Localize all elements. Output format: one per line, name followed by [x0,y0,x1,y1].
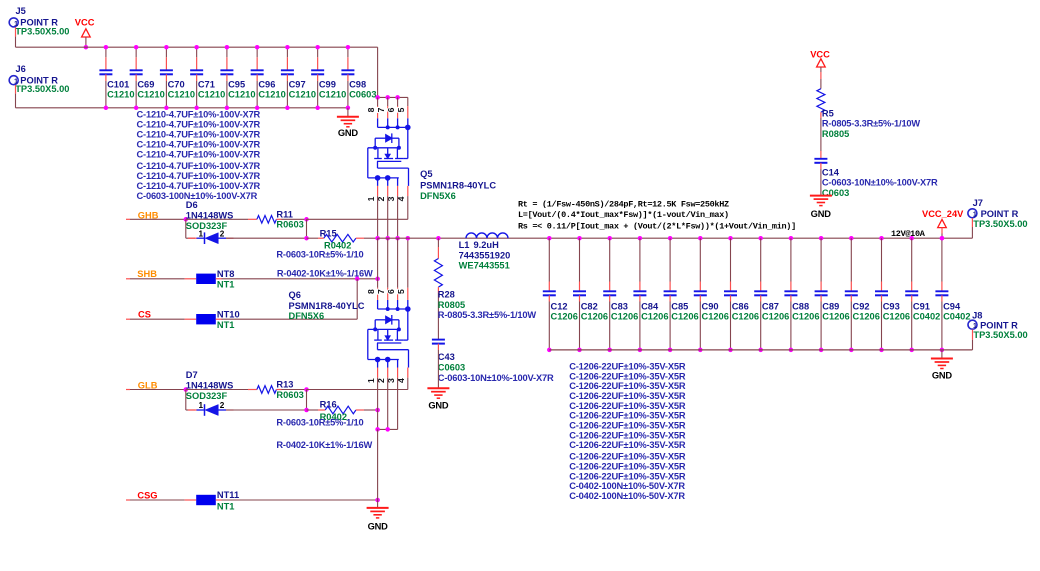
svg-text:9.2uH: 9.2uH [474,240,500,250]
Q6 top pin wire from switch node [397,238,399,288]
wire VCC_24V to bus [941,234,943,239]
capacitor C87 [758,236,763,241]
wire CS to riser [222,318,358,320]
D6 pin1 stub [188,237,197,239]
power symbol VCC (R5) triangle [817,59,826,67]
svg-text:TP3.50X5.00: TP3.50X5.00 [15,84,69,94]
net-tie NT8 [196,274,216,284]
svg-text:C1210: C1210 [198,89,225,99]
svg-text:R-0603-10R±5%-1/10: R-0603-10R±5%-1/10 [276,418,363,428]
wire D7 cathode to R16 [226,409,307,411]
Q5 source pin wire to switch node [397,196,399,238]
svg-text:C1206: C1206 [792,312,819,322]
capacitor C89 [819,236,824,241]
svg-text:C1206: C1206 [641,312,668,322]
svg-text:WE7443551: WE7443551 [459,261,510,271]
svg-text:R28: R28 [438,289,455,299]
Q6 pin2 wire down [387,378,389,430]
Q6 pin1 wire to tie bar [377,410,379,429]
capacitor C98 [347,47,349,57]
junction CSG/GND [375,498,380,503]
svg-text:C-1206-22UF±10%-35V-X5R: C-1206-22UF±10%-35V-X5R [569,452,686,462]
svg-text:C-1210-4.7UF±10%-100V-X7R: C-1210-4.7UF±10%-100V-X7R [137,140,261,150]
svg-text:NT8: NT8 [217,269,235,279]
ground GND1 (input bank) [337,116,359,118]
wire switch node / output bus [378,237,973,239]
svg-text:CSG: CSG [137,491,157,501]
junction VCC/bus [84,45,89,50]
svg-text:12V@10A: 12V@10A [891,229,926,239]
D6 pin1 blue lead [197,237,205,239]
ground GND5 (output bank) [931,358,953,360]
GHB wire start tick [126,218,130,220]
svg-text:C1206: C1206 [853,312,880,322]
svg-text:L1: L1 [459,240,470,250]
wire VCC bus down to Q5 [377,47,379,97]
svg-text:R0603: R0603 [276,390,303,400]
svg-text:SHB: SHB [137,269,157,279]
wire J6 to GND bus [15,94,17,108]
capacitor C70 [165,47,167,57]
svg-text:C-0402-100N±10%-50V-X7R: C-0402-100N±10%-50V-X7R [569,491,685,501]
svg-text:C-1206-22UF±10%-35V-X5R: C-1206-22UF±10%-35V-X5R [569,391,686,401]
Q6 top pin wire from switch node [377,238,379,288]
wire NT8 to Q6 pin8 [222,278,378,280]
wire R16 to pin1 column [364,409,378,411]
diode D7 symbol [204,404,206,416]
svg-text:C1206: C1206 [762,312,789,322]
capacitor C86 [728,236,733,241]
resistor R15 [324,234,356,242]
svg-text:C-1206-22UF±10%-35V-X5R: C-1206-22UF±10%-35V-X5R [569,430,686,440]
svg-text:SOD323F: SOD323F [186,391,228,401]
svg-text:NT1: NT1 [217,279,235,289]
svg-text:C-1210-4.7UF±10%-100V-X7R: C-1210-4.7UF±10%-100V-X7R [137,181,261,191]
wire GND bus [16,107,348,109]
svg-text:Rs =< 0.11/P[Iout_max + (Vout/: Rs =< 0.11/P[Iout_max + (Vout/(2*L*Fsw))… [518,221,796,231]
svg-text:C93: C93 [883,301,900,311]
svg-text:TP3.50X5.00: TP3.50X5.00 [973,330,1027,340]
testpoint J6 [9,76,18,85]
wire J8 to ground bus [972,340,974,350]
svg-text:C1206: C1206 [702,312,729,322]
wire CSG to GND column [222,499,378,501]
wire source tie down to CSG/GND [377,429,379,500]
junction GLB/D7 [184,387,189,392]
junction D6/R15 [304,236,309,241]
svg-text:C-0603-10N±10%-100V-X7R: C-0603-10N±10%-100V-X7R [822,178,938,188]
D7 pin2 stub [226,409,234,411]
testpoint J8 [968,320,977,329]
svg-text:1: 1 [366,378,376,383]
svg-text:C-1206-22UF±10%-35V-X5R: C-1206-22UF±10%-35V-X5R [569,381,686,391]
wire CSG [130,499,185,501]
svg-text:1: 1 [973,210,977,219]
transistor Q5 PSMN1R8-40YLC symbol internal junction dots [386,125,390,129]
junction R28 branch [436,236,441,241]
svg-text:7: 7 [376,289,386,294]
capacitor C94 [940,236,945,241]
Q6 top pin wire from switch node [407,238,409,288]
svg-text:R13: R13 [276,380,293,390]
svg-text:C1206: C1206 [883,312,910,322]
capacitor C88 [789,236,794,241]
junction R16/pin1 column [375,408,380,413]
Q5 top pin wire [397,97,399,106]
Q6 gate pin wire to GLB [407,378,409,390]
svg-text:PSMN1R8-40YLC: PSMN1R8-40YLC [420,181,496,191]
testpoint J5 [9,18,18,27]
svg-text:DFN5X6: DFN5X6 [289,311,325,321]
wire R11-R15 vertical [306,219,308,238]
svg-text:C94: C94 [943,301,961,311]
wire R13 to junction [282,389,307,391]
capacitor C43 [432,339,445,341]
wire to R28 [437,238,439,247]
svg-text:C-1210-4.7UF±10%-100V-X7R: C-1210-4.7UF±10%-100V-X7R [137,129,261,139]
svg-text:C-0603-10N±10%-100V-X7R: C-0603-10N±10%-100V-X7R [438,373,554,383]
wire CS riser up to SHB [356,279,358,319]
NT10 pin stub [185,318,197,320]
J7 pin stub [971,218,973,227]
svg-text:Q5: Q5 [420,169,432,179]
svg-text:C95: C95 [228,80,245,90]
junction Q5 drain pin at x=387.7 [385,95,390,100]
svg-text:C-0402-100N±10%-50V-X7R: C-0402-100N±10%-50V-X7R [569,481,685,491]
capacitor C92 [849,236,854,241]
svg-text:C-1206-22UF±10%-35V-X5R: C-1206-22UF±10%-35V-X5R [569,371,686,381]
junction Q5 drain pin at x=377.6 [375,95,380,100]
svg-text:C69: C69 [137,80,154,90]
Q5 top pin wire [377,97,379,106]
svg-text:C1206: C1206 [611,312,638,322]
svg-text:C-1210-4.7UF±10%-100V-X7R: C-1210-4.7UF±10%-100V-X7R [137,171,261,181]
svg-text:C43: C43 [438,352,455,362]
resistor R13 [257,386,277,394]
svg-text:VCC_24V: VCC_24V [922,209,964,219]
svg-text:J5: J5 [16,6,26,16]
svg-text:GND: GND [811,209,832,219]
svg-text:5: 5 [396,289,406,294]
svg-text:8: 8 [366,289,376,294]
svg-text:R5: R5 [822,108,834,118]
svg-text:C70: C70 [168,80,185,90]
wire to GND5 [941,350,943,358]
svg-text:D7: D7 [186,370,198,380]
svg-text:C0603: C0603 [349,89,376,99]
Q5 top pin wire [407,97,409,106]
transistor Q6 PSMN1R8-40YLC symbol pin stubs [377,288,379,300]
ground GND2 (C14) [810,195,832,197]
svg-text:C-1210-4.7UF±10%-100V-X7R: C-1210-4.7UF±10%-100V-X7R [137,150,261,160]
junction switch node pin5 [406,236,411,241]
svg-text:2: 2 [220,229,225,238]
D7 pin2 blue lead [218,409,226,411]
capacitor C101 [105,47,107,57]
svg-text:GND: GND [338,128,359,138]
capacitor C91 [909,236,914,241]
wire D7 anode drop [185,390,187,411]
capacitor C90 [698,236,703,241]
wire GLB to Q6 gate pin4 [307,389,408,391]
junction D7/R16 [304,408,309,413]
svg-text:C-1206-22UF±10%-35V-X5R: C-1206-22UF±10%-35V-X5R [569,421,686,431]
svg-text:C92: C92 [853,301,870,311]
capacitor C84 [638,236,643,241]
svg-text:C-1206-22UF±10%-35V-X5R: C-1206-22UF±10%-35V-X5R [569,461,686,471]
svg-text:1: 1 [973,321,977,330]
svg-text:R-0402-10K±1%-1/16W: R-0402-10K±1%-1/16W [276,440,372,450]
svg-text:CS: CS [138,309,151,319]
capacitor C95 [226,47,228,57]
wire GLB [130,389,186,391]
wire SHB [130,278,185,280]
svg-text:PSMN1R8-40YLC: PSMN1R8-40YLC [289,301,365,311]
wire GHB [130,218,186,220]
wire R15 to switch node [364,237,378,239]
svg-text:C0603: C0603 [438,363,465,373]
capacitor C85 [668,236,673,241]
inductor L1 [466,233,508,238]
svg-text:R0805: R0805 [438,300,465,310]
wire GHB to Q5 gate pin4 [307,218,408,220]
wire VCC to bus [85,37,87,47]
wire J7 to output bus [971,227,973,238]
svg-text:J6: J6 [16,64,26,74]
svg-text:D6: D6 [186,200,198,210]
svg-text:C-1206-22UF±10%-35V-X5R: C-1206-22UF±10%-35V-X5R [569,361,686,371]
svg-text:C96: C96 [258,80,275,90]
svg-text:C85: C85 [671,301,688,311]
svg-text:C-1210-4.7UF±10%-100V-X7R: C-1210-4.7UF±10%-100V-X7R [137,109,261,119]
svg-text:1: 1 [199,401,204,410]
diode D6 symbol [204,232,206,244]
svg-text:5: 5 [396,107,406,112]
testpoint J7 [968,209,977,218]
resistor R11 [257,216,277,224]
svg-text:GND: GND [368,522,389,532]
junction R11/R13 branch [304,217,309,222]
svg-text:R0805: R0805 [822,129,849,139]
net-tie NT10 [196,314,216,324]
wire C98 to GND [347,108,349,117]
capacitor C69 [135,47,137,57]
svg-text:NT11: NT11 [217,490,239,500]
svg-text:C-1206-22UF±10%-35V-X5R: C-1206-22UF±10%-35V-X5R [569,471,686,481]
svg-text:1: 1 [366,196,376,201]
wire J5 to VCC bus [15,37,17,48]
junction Q5 drain pin at x=397.6 [395,95,400,100]
svg-text:C84: C84 [641,301,659,311]
wire output ground bus [549,349,972,351]
svg-text:R-0805-3.3R±5%-1/10W: R-0805-3.3R±5%-1/10W [822,119,921,129]
svg-text:C82: C82 [581,301,598,311]
NT11 pin stub [185,499,197,501]
Q5 source pin wire to switch node [377,196,379,238]
wire R28 to C43 [437,293,439,339]
svg-text:POINT R: POINT R [981,209,1019,219]
svg-text:DFN5X6: DFN5X6 [420,191,456,201]
ground GND3 (C43) [427,387,449,389]
capacitor C71 [196,47,198,57]
Q5 gate pin wire to GHB [407,196,409,219]
capacitor C93 [879,236,884,241]
wire Q6 source tie bar [378,428,398,430]
svg-text:C1210: C1210 [319,89,346,99]
svg-text:L=[Vout/(0.4*Iout_max*Fsw)]*(1: L=[Vout/(0.4*Iout_max*Fsw)]*(1-vout/Vin_… [518,210,729,220]
svg-text:GND: GND [428,400,449,410]
VCC_24V pin stub [941,228,943,234]
svg-text:C1206: C1206 [581,312,608,322]
svg-text:C89: C89 [822,301,839,311]
svg-text:R-0805-3.3R±5%-1/10W: R-0805-3.3R±5%-1/10W [438,310,537,320]
svg-text:C-1210-4.7UF±10%-100V-X7R: C-1210-4.7UF±10%-100V-X7R [137,161,261,171]
wire R13-R16 vertical [306,390,308,411]
svg-text:TP3.50X5.00: TP3.50X5.00 [15,26,69,36]
svg-text:7443551920: 7443551920 [459,250,511,260]
capacitor C83 [607,236,612,241]
wire C43 to GND3 [437,350,439,388]
svg-text:VCC: VCC [810,49,830,59]
svg-text:C101: C101 [107,80,129,90]
junction switch node [385,236,390,241]
capacitor C14 [814,158,827,160]
D6 pin2 blue lead [218,237,226,239]
svg-text:C83: C83 [611,301,628,311]
svg-text:C-1206-22UF±10%-35V-X5R: C-1206-22UF±10%-35V-X5R [569,411,686,421]
svg-text:8: 8 [366,107,376,112]
capacitor C82 [577,236,582,241]
svg-text:C-1210-4.7UF±10%-100V-X7R: C-1210-4.7UF±10%-100V-X7R [137,119,261,129]
resistor R16 [325,406,356,414]
svg-text:C99: C99 [319,80,336,90]
svg-text:7: 7 [376,107,386,112]
svg-text:VCC: VCC [75,17,95,27]
junction R13/R16 branch [304,387,309,392]
svg-text:C98: C98 [349,80,366,90]
Q6 top pin wire from switch node [387,238,389,288]
wire D6 anode drop [185,219,187,238]
svg-text:C87: C87 [762,301,779,311]
wire VCC bus [16,46,378,48]
wire CS [130,318,185,320]
svg-text:C-1206-22UF±10%-35V-X5R: C-1206-22UF±10%-35V-X5R [569,401,686,411]
junction SHB/pin8 column [375,277,380,282]
svg-text:C71: C71 [198,80,215,90]
svg-text:C1210: C1210 [289,89,316,99]
power symbol VCC triangle [82,29,91,37]
svg-text:C97: C97 [289,80,306,90]
capacitor C97 [286,47,288,57]
transistor Q6 PSMN1R8-40YLC symbol [368,300,409,368]
NT8 pin stub [185,278,197,280]
svg-text:C1210: C1210 [137,89,164,99]
capacitor C12 [547,236,552,241]
junction VCC_24V/bus [940,236,945,241]
Q6 pin3 wire down [397,378,399,430]
ground GND4 (CSG) [367,507,389,509]
J5 pin stub [15,27,17,36]
wire R5 to C14 [820,118,822,151]
svg-text:TP3.50X5.00: TP3.50X5.00 [973,219,1027,229]
svg-text:C14: C14 [822,167,840,177]
svg-text:C1206: C1206 [822,312,849,322]
svg-text:Rt = (1/Fsw-450nS)/284pF,Rt=12: Rt = (1/Fsw-450nS)/284pF,Rt=12.5K Fsw=25… [518,200,729,210]
svg-text:2: 2 [220,401,225,410]
wire GHB to R11 [186,218,248,220]
wire GLB to R13 [186,389,248,391]
Q5 top pin wire [387,97,389,106]
svg-text:1: 1 [199,229,204,238]
junction source tie 2 [385,427,390,432]
svg-text:C90: C90 [702,301,719,311]
svg-text:C0402: C0402 [913,312,940,322]
svg-text:POINT R: POINT R [980,320,1018,330]
transistor Q5 PSMN1R8-40YLC symbol pin stubs [377,106,379,118]
D7 pin1 blue lead [197,409,205,411]
svg-text:NT1: NT1 [217,320,235,330]
junction SHB/CS riser [355,277,360,282]
capacitor C99 [317,47,319,57]
transistor Q5 PSMN1R8-40YLC symbol [368,118,409,186]
power symbol VCC_24V triangle [938,219,947,227]
svg-text:C86: C86 [732,301,749,311]
D7 pin1 stub [188,409,197,411]
wire to GND4 [377,500,379,508]
junction source tie 1 [375,427,380,432]
svg-text:R0603: R0603 [276,220,303,230]
resistor R5 [817,89,825,113]
D6 pin2 stub [226,237,234,239]
wire C14 to GND2 [820,169,822,195]
svg-text:C88: C88 [792,301,809,311]
svg-text:C1210: C1210 [168,89,195,99]
svg-text:C12: C12 [551,301,568,311]
capacitor C96 [256,47,258,57]
svg-text:J8: J8 [972,311,982,321]
svg-text:C1206: C1206 [732,312,759,322]
svg-text:6: 6 [386,107,396,112]
svg-text:C0402: C0402 [943,312,970,322]
svg-text:NT10: NT10 [217,309,240,319]
junction switch node [375,236,380,241]
svg-text:R16: R16 [320,400,337,410]
net-tie NT11 [196,495,216,505]
junction GHB/D6 [184,217,189,222]
svg-text:C1210: C1210 [258,89,285,99]
Q6 pin1 wire down [377,378,379,410]
svg-text:C1206: C1206 [671,312,698,322]
svg-text:J7: J7 [973,198,983,208]
svg-text:6: 6 [386,289,396,294]
svg-text:GND: GND [932,370,953,380]
J8 pin stub [972,330,974,340]
svg-text:C1210: C1210 [107,89,134,99]
wire D6 cathode to R15 [226,237,307,239]
J6 pin stub [15,85,17,94]
transistor Q6 PSMN1R8-40YLC symbol internal junction dots [386,307,390,311]
wire Q5 drain header [378,96,408,98]
junction switch node [395,236,400,241]
wire R11 to junction [282,218,307,220]
svg-text:C-1206-22UF±10%-35V-X5R: C-1206-22UF±10%-35V-X5R [569,440,686,450]
Q5 source pin wire to switch node [387,196,389,238]
svg-text:C1210: C1210 [228,89,255,99]
svg-text:R11: R11 [276,209,293,219]
svg-text:C1206: C1206 [551,312,578,322]
svg-text:R-0603-10R±5%-1/10: R-0603-10R±5%-1/10 [276,250,363,260]
resistor R28 [434,259,442,288]
